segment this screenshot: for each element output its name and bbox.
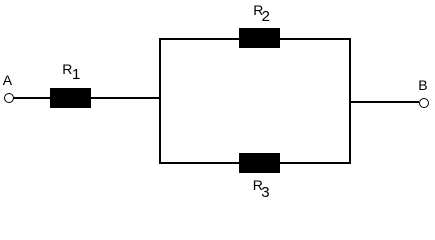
label R2 [253, 3, 263, 17]
resistor R1 [50, 88, 91, 108]
label R1 [62, 62, 72, 76]
wire [159, 162, 351, 164]
wire [349, 38, 351, 164]
wire [91, 97, 159, 99]
wire [159, 38, 351, 40]
resistor R2 [239, 28, 280, 48]
wire [13, 97, 50, 99]
node B [419, 98, 429, 108]
label R3 [253, 178, 263, 192]
wire [351, 101, 419, 103]
wire [159, 38, 161, 164]
node A [4, 93, 14, 103]
label B [418, 78, 427, 92]
label A [3, 73, 12, 87]
resistor R3 [239, 153, 280, 173]
